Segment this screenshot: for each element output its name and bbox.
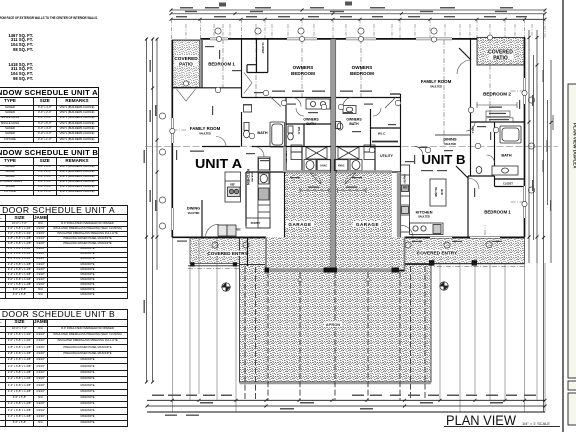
note text top-left	[0, 16, 97, 20]
svg-text:VAULTED: VAULTED	[199, 132, 211, 136]
svg-text:FAMILY ROOM: FAMILY ROOM	[421, 79, 452, 84]
kitchen B counters	[401, 165, 410, 232]
svg-text:DINING: DINING	[187, 207, 200, 211]
bedroom2 dim ladder	[477, 102, 517, 122]
svg-text:BATH: BATH	[257, 131, 268, 135]
svg-text:REF: REF	[230, 184, 235, 187]
svg-text:APRON: APRON	[326, 322, 341, 327]
svg-text:VAULTED: VAULTED	[188, 211, 200, 215]
door schedule unit A table	[0, 205, 128, 299]
title block column	[568, 84, 576, 425]
garage side walls gray	[265, 237, 267, 270]
svg-text:UNIT A: UNIT A	[195, 156, 242, 171]
survey markers	[222, 282, 448, 291]
building outer walls	[172, 37, 524, 270]
svg-text:REF.: REF.	[403, 187, 409, 190]
svg-text:CLOSET: CLOSET	[503, 183, 513, 186]
interior walls unit A	[172, 39, 331, 237]
svg-text:CLOSET: CLOSET	[261, 42, 265, 54]
svg-text:GARAGE: GARAGE	[288, 222, 311, 227]
svg-text:DINING: DINING	[443, 138, 456, 142]
svg-text:BEDROOM 2: BEDROOM 2	[483, 92, 511, 97]
owners bath B	[343, 106, 356, 114]
svg-text:UNIT B: UNIT B	[422, 152, 466, 167]
interior dimension text smudges	[176, 46, 520, 242]
patio A door swing	[177, 73, 253, 102]
svg-text:OWNERS: OWNERS	[303, 118, 319, 122]
svg-text:PANTRY: PANTRY	[403, 174, 406, 184]
fixtures unit A bath	[218, 99, 521, 236]
svg-text:1/4" = 1' SCALE: 1/4" = 1' SCALE	[522, 421, 550, 426]
left wall tag circles	[159, 97, 534, 229]
owners bath A counter	[306, 99, 330, 109]
window centerlines inside rooms	[172, 39, 524, 262]
garage B floor hatch	[336, 173, 405, 271]
label halos	[175, 49, 514, 327]
left dimension chains	[147, 38, 158, 382]
svg-text:UTILITY: UTILITY	[380, 154, 394, 158]
svg-text:BAR: BAR	[440, 189, 444, 195]
garage north wall gray headers	[286, 170, 330, 173]
garage A floor hatch	[266, 173, 331, 271]
utility appliances	[304, 160, 316, 171]
svg-text:BATH: BATH	[306, 122, 316, 126]
party wall	[331, 39, 336, 271]
plan view title	[446, 412, 550, 428]
garage door headers	[268, 268, 324, 271]
svg-text:HVAC: HVAC	[338, 165, 345, 168]
section cut line	[145, 145, 558, 147]
unit B square footage list	[0, 63, 33, 82]
bath B fixtures	[500, 126, 521, 143]
covered entry B hatch	[405, 238, 525, 264]
door schedule unit B table	[0, 309, 128, 427]
entry posts	[190, 260, 477, 266]
svg-text:BEDROOM: BEDROOM	[291, 71, 315, 76]
svg-text:OWNERS: OWNERS	[293, 65, 314, 70]
svg-text:BEDROOM: BEDROOM	[350, 71, 374, 76]
svg-text:KITCHEN: KITCHEN	[416, 211, 433, 215]
top dimension chain 1	[171, 9, 545, 11]
svg-text:HVAC: HVAC	[320, 165, 327, 168]
garage door center marks	[298, 278, 302, 282]
svg-text:PATIO: PATIO	[179, 62, 193, 67]
svg-text:VAULTED: VAULTED	[430, 85, 442, 89]
right dimension chains	[529, 14, 553, 412]
svg-text:REF.: REF.	[236, 229, 242, 232]
svg-text:VAULTED: VAULTED	[418, 215, 430, 219]
garage A west wall poche	[283, 147, 286, 173]
bottom extension lines outside apron	[172, 238, 545, 412]
attic access X boxes	[306, 147, 327, 159]
hvac closet door swings into garage	[300, 173, 366, 193]
room labels	[174, 42, 513, 327]
svg-text:KITCHEN: KITCHEN	[246, 169, 250, 185]
top extension lines	[172, 10, 546, 40]
covered patio B hatch	[477, 37, 525, 65]
garage B east wall poche	[397, 172, 401, 237]
unit A square footage list	[0, 34, 33, 53]
svg-text:COVERED: COVERED	[174, 56, 198, 61]
covered patio A hatch	[172, 40, 200, 88]
apron hatch	[240, 265, 432, 383]
covered entry A hatch	[190, 238, 240, 264]
window schedule unit B table	[0, 147, 99, 196]
window schedule unit A table	[0, 87, 99, 143]
hall B label	[471, 127, 475, 134]
svg-text:FAMILY ROOM: FAMILY ROOM	[190, 126, 221, 131]
svg-text:BATH: BATH	[501, 154, 512, 158]
verticals through apron	[245, 266, 425, 400]
svg-text:ISLAND: ISLAND	[434, 187, 438, 197]
top dimension chain 3 with ticks	[170, 18, 547, 21]
svg-text:W.I.C.: W.I.C.	[297, 127, 301, 135]
top dimension chain 2	[171, 13, 545, 15]
kitchen B dim smudges	[414, 155, 447, 171]
svg-text:GARAGE: GARAGE	[356, 222, 379, 227]
bottom dimension text rows	[152, 395, 536, 416]
svg-text:PLAN VIEW DUPLEX: PLAN VIEW DUPLEX	[573, 123, 576, 169]
wall tag circles top	[170, 28, 527, 248]
svg-text:PANTRY: PANTRY	[251, 222, 261, 225]
svg-text:VAULTED: VAULTED	[444, 142, 456, 146]
svg-text:BEDROOM 1: BEDROOM 1	[484, 210, 511, 215]
kitchen bay wall through entry	[247, 238, 249, 266]
top dimension text smudges	[176, 2, 527, 18]
sheet border line right	[562, 0, 564, 432]
window symbols on outer walls	[172, 39, 524, 237]
kitchen A counters	[258, 157, 270, 228]
interior walls unit B	[336, 39, 525, 237]
svg-text:BEDROOM 1: BEDROOM 1	[208, 62, 235, 67]
svg-text:COVERED ENTRY: COVERED ENTRY	[417, 251, 458, 256]
interior tag circles	[215, 87, 499, 153]
left rotated dim text smudges	[144, 60, 157, 313]
entry door arcs	[206, 60, 495, 237]
svg-text:PLAN VIEW: PLAN VIEW	[446, 412, 517, 428]
svg-text:VAULTED: VAULTED	[251, 172, 254, 182]
svg-text:OWNERS: OWNERS	[352, 65, 373, 70]
covered entry boundary lines	[188, 265, 240, 267]
svg-text:PATIO: PATIO	[493, 56, 508, 62]
right rotated dim text	[532, 70, 551, 211]
top chain end ticks	[170, 9, 547, 16]
svg-text:BATH: BATH	[349, 122, 359, 126]
svg-text:W.I.C.: W.I.C.	[378, 132, 386, 136]
svg-text:HALL: HALL	[471, 127, 475, 134]
svg-text:COVERED ENTRY: COVERED ENTRY	[207, 251, 248, 256]
svg-text:OWNERS: OWNERS	[346, 118, 362, 122]
bottom dimension chains	[147, 400, 545, 412]
